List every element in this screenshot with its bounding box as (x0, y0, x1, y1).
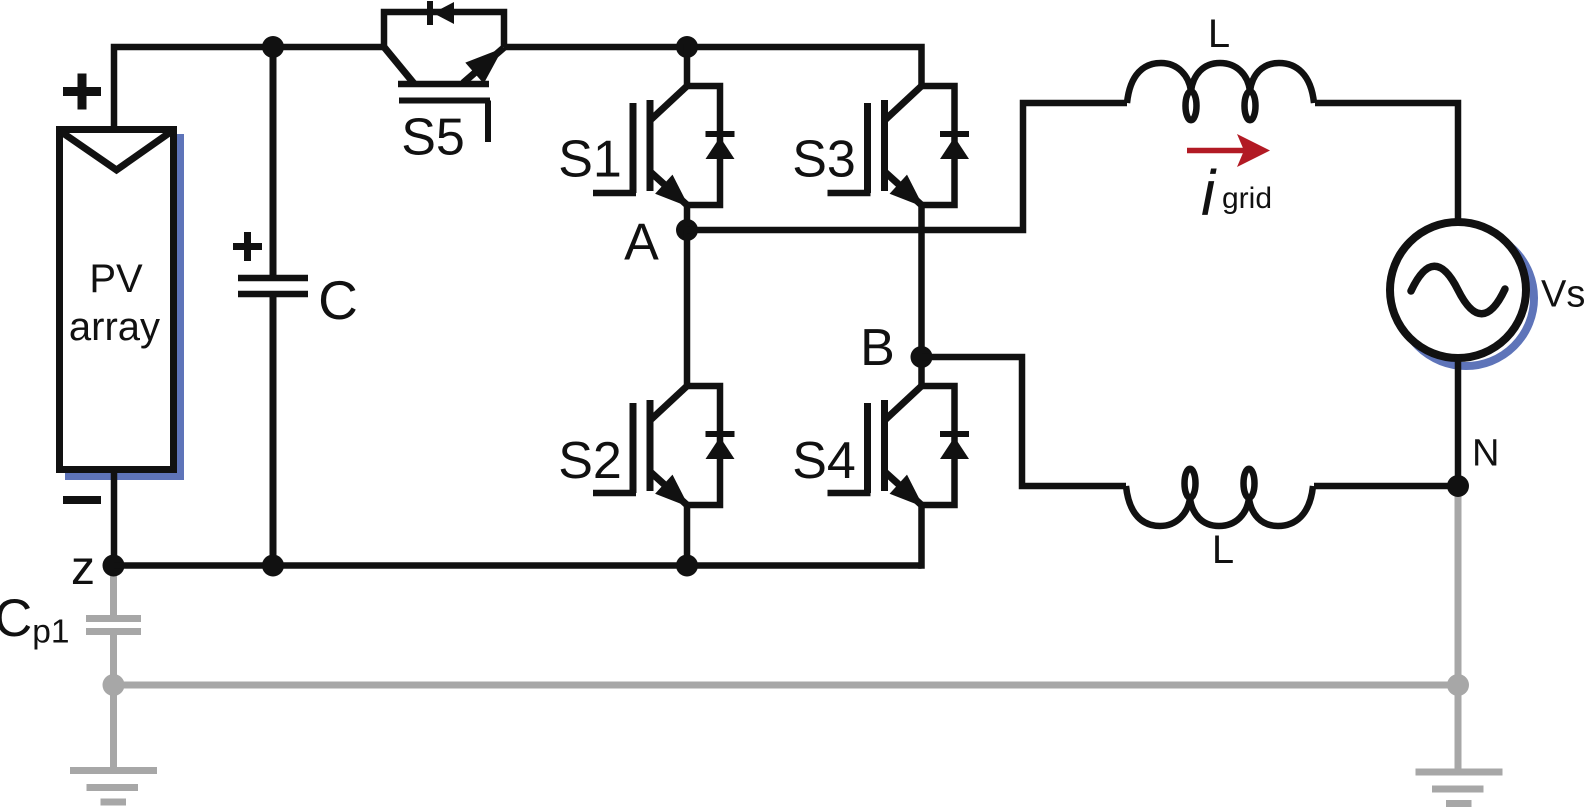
junction dot S2 bottom (676, 555, 698, 577)
node N dot (1447, 475, 1469, 497)
wire bottom inductor to node N (1314, 483, 1458, 490)
source Vs sine wave (1411, 266, 1505, 314)
wire top inductor to Vs (1315, 103, 1458, 224)
ground symbol right (1416, 772, 1503, 804)
gray junction dot left (103, 674, 125, 696)
svg-text:i: i (1201, 157, 1217, 229)
capacitor C (238, 47, 308, 566)
svg-text:S3: S3 (792, 131, 856, 189)
svg-text:N: N (1472, 433, 1499, 475)
gray wire z to Cp1 top plate (110, 565, 117, 616)
PV array label (69, 257, 160, 349)
current arrow igrid (1187, 134, 1270, 167)
wire PV bottom to node z (111, 471, 118, 565)
PV array body (60, 130, 174, 470)
wire S1 emitter to node A (684, 205, 691, 232)
wire node B to bottom inductor (922, 357, 1127, 486)
PV array shadow (65, 134, 184, 480)
source Vs circle (1390, 222, 1526, 358)
wire Vs to node N (1455, 356, 1462, 486)
transistor S2 (593, 386, 735, 507)
wire S2 emitter to bottom bus (684, 505, 691, 566)
svg-text:PV: PV (89, 257, 143, 301)
svg-text:S2: S2 (558, 432, 622, 490)
minus terminal PV (63, 496, 101, 504)
node B dot (911, 346, 933, 368)
svg-text:Vs: Vs (1541, 274, 1585, 316)
transistor S5 (384, 1, 504, 142)
junction dot C top (262, 36, 284, 58)
svg-text:S5: S5 (401, 109, 465, 167)
svg-text:array: array (69, 305, 160, 349)
svg-text:grid: grid (1222, 182, 1272, 215)
gray wire Cp1 to left ground (110, 635, 117, 771)
svg-text:z: z (71, 542, 95, 595)
inductor L top (1127, 63, 1314, 120)
transistor S1 (593, 86, 735, 207)
wire node A to S2 collector (684, 230, 691, 386)
gray wire N to right ground (1455, 490, 1462, 770)
plus terminal PV (63, 74, 101, 110)
svg-text:A: A (624, 214, 659, 272)
svg-text:L: L (1212, 528, 1234, 572)
wire bottom bus (114, 562, 922, 569)
wire S4 emitter to bottom bus (918, 505, 925, 569)
junction dot C bottom (262, 555, 284, 577)
svg-text:Cp1: Cp1 (0, 589, 70, 651)
wire S1 collector stub (684, 44, 691, 86)
transistor S3 (828, 86, 970, 207)
node z dot (103, 555, 125, 577)
svg-text:S1: S1 (558, 131, 622, 189)
capacitor Cp1 (86, 619, 141, 632)
svg-text:C: C (318, 269, 358, 331)
wire node A to top inductor (687, 103, 1127, 230)
PV array chevron (60, 131, 172, 170)
gray junction dot right (1447, 674, 1469, 696)
wire top bus right of S5 (504, 47, 922, 86)
svg-text:L: L (1208, 12, 1230, 56)
svg-text:B: B (860, 319, 895, 377)
svg-text:S4: S4 (792, 432, 856, 490)
wire PV top to bus (114, 47, 384, 126)
junction dot top bus at S1 (676, 36, 698, 58)
node A dot (676, 219, 698, 241)
transistor S4 (828, 386, 970, 507)
source Vs shadow (1398, 230, 1534, 366)
wire S3 emitter to node B (918, 205, 925, 386)
inductor L bottom (1126, 469, 1313, 526)
plus label C (233, 232, 262, 261)
gray earth bus wire (114, 682, 1459, 689)
ground symbol left (70, 771, 157, 803)
